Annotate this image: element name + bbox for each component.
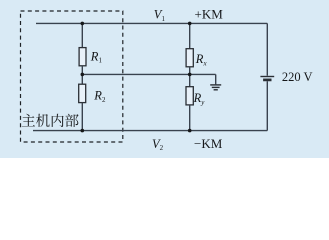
wire: top bus V1 <box>36 22 267 24</box>
wire: left branch between R1 and R2 <box>81 66 83 85</box>
wire: battery top lead <box>266 23 268 75</box>
resistor Ry <box>186 87 193 105</box>
battery E 220V <box>260 77 274 80</box>
resistor R2 <box>79 84 86 102</box>
node: top-right junction <box>188 22 192 26</box>
svg-text:+KM: +KM <box>195 6 224 21</box>
svg-text:−KM: −KM <box>194 136 223 151</box>
wire: right branch upper segment <box>189 23 191 49</box>
svg-text:220 V: 220 V <box>282 70 313 84</box>
node: mid-right junction <box>188 73 192 77</box>
wire: ground stub <box>215 74 217 84</box>
label: host-internal text (主机内部) as paths <box>22 114 79 127</box>
node: bottom-left junction <box>81 129 85 133</box>
wire: left branch upper segment <box>81 23 83 48</box>
resistor Rx <box>186 49 193 67</box>
node: bottom-right junction <box>188 129 192 133</box>
dashed enclosure box (host machine) <box>21 11 123 142</box>
resistor R1 <box>79 48 86 66</box>
wire: left branch lower segment <box>81 103 83 131</box>
wire: middle bus <box>82 73 215 75</box>
wire: battery bottom lead <box>266 81 268 130</box>
ground <box>210 85 221 90</box>
node: mid-left junction <box>81 73 85 77</box>
node: top-left junction <box>81 22 85 26</box>
wire: right branch lower segment <box>189 105 191 131</box>
wire: right branch between Rx and Ry <box>189 67 191 87</box>
wire: bottom bus V2 <box>33 130 267 132</box>
